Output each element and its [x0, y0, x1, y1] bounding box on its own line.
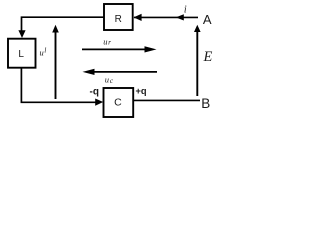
- svg-text:u: u: [103, 36, 107, 46]
- svg-text:B: B: [201, 96, 210, 111]
- label ul: [40, 46, 47, 58]
- svg-text:A: A: [203, 12, 212, 27]
- inductor L: [8, 39, 36, 68]
- u_r direction arrow (horizontal, pointing right): [82, 46, 157, 52]
- wire top-left from corner to R box: [22, 17, 104, 30]
- label uc: [105, 75, 114, 85]
- node B: [201, 96, 210, 111]
- svg-text:-q: -q: [90, 86, 99, 97]
- svg-text:r: r: [108, 37, 111, 46]
- svg-text:u: u: [40, 48, 44, 58]
- svg-text:R: R: [115, 14, 122, 25]
- u_L direction arrow (vertical, pointing up): [52, 25, 59, 99]
- svg-text:u: u: [105, 75, 109, 85]
- svg-text:l: l: [44, 46, 46, 55]
- capacitor C: [104, 88, 134, 117]
- svg-text:+q: +q: [136, 86, 147, 96]
- resistor R: [104, 4, 133, 30]
- u_c direction arrow (horizontal, pointing left): [83, 69, 158, 75]
- label E: [202, 49, 212, 65]
- EMF arrow E (vertical, pointing up): [194, 25, 201, 96]
- label ur: [103, 36, 111, 46]
- svg-text:E: E: [202, 49, 212, 65]
- arrowhead into C left edge: [95, 99, 103, 106]
- label +q: [136, 86, 147, 96]
- wire from L bottom to C left: [21, 68, 95, 102]
- label -q: [90, 86, 99, 97]
- wire from C right to node B: [134, 99, 200, 101]
- node A: [203, 12, 212, 27]
- arrowhead into R right edge: [134, 14, 142, 21]
- current direction arrowhead i: [176, 14, 184, 20]
- svg-text:L: L: [18, 49, 24, 60]
- svg-text:i: i: [184, 5, 187, 16]
- svg-text:c: c: [110, 76, 114, 85]
- label i: [184, 5, 187, 16]
- wire from node A to R: [134, 16, 198, 18]
- svg-text:C: C: [114, 96, 122, 108]
- arrowhead into L top: [18, 30, 25, 38]
